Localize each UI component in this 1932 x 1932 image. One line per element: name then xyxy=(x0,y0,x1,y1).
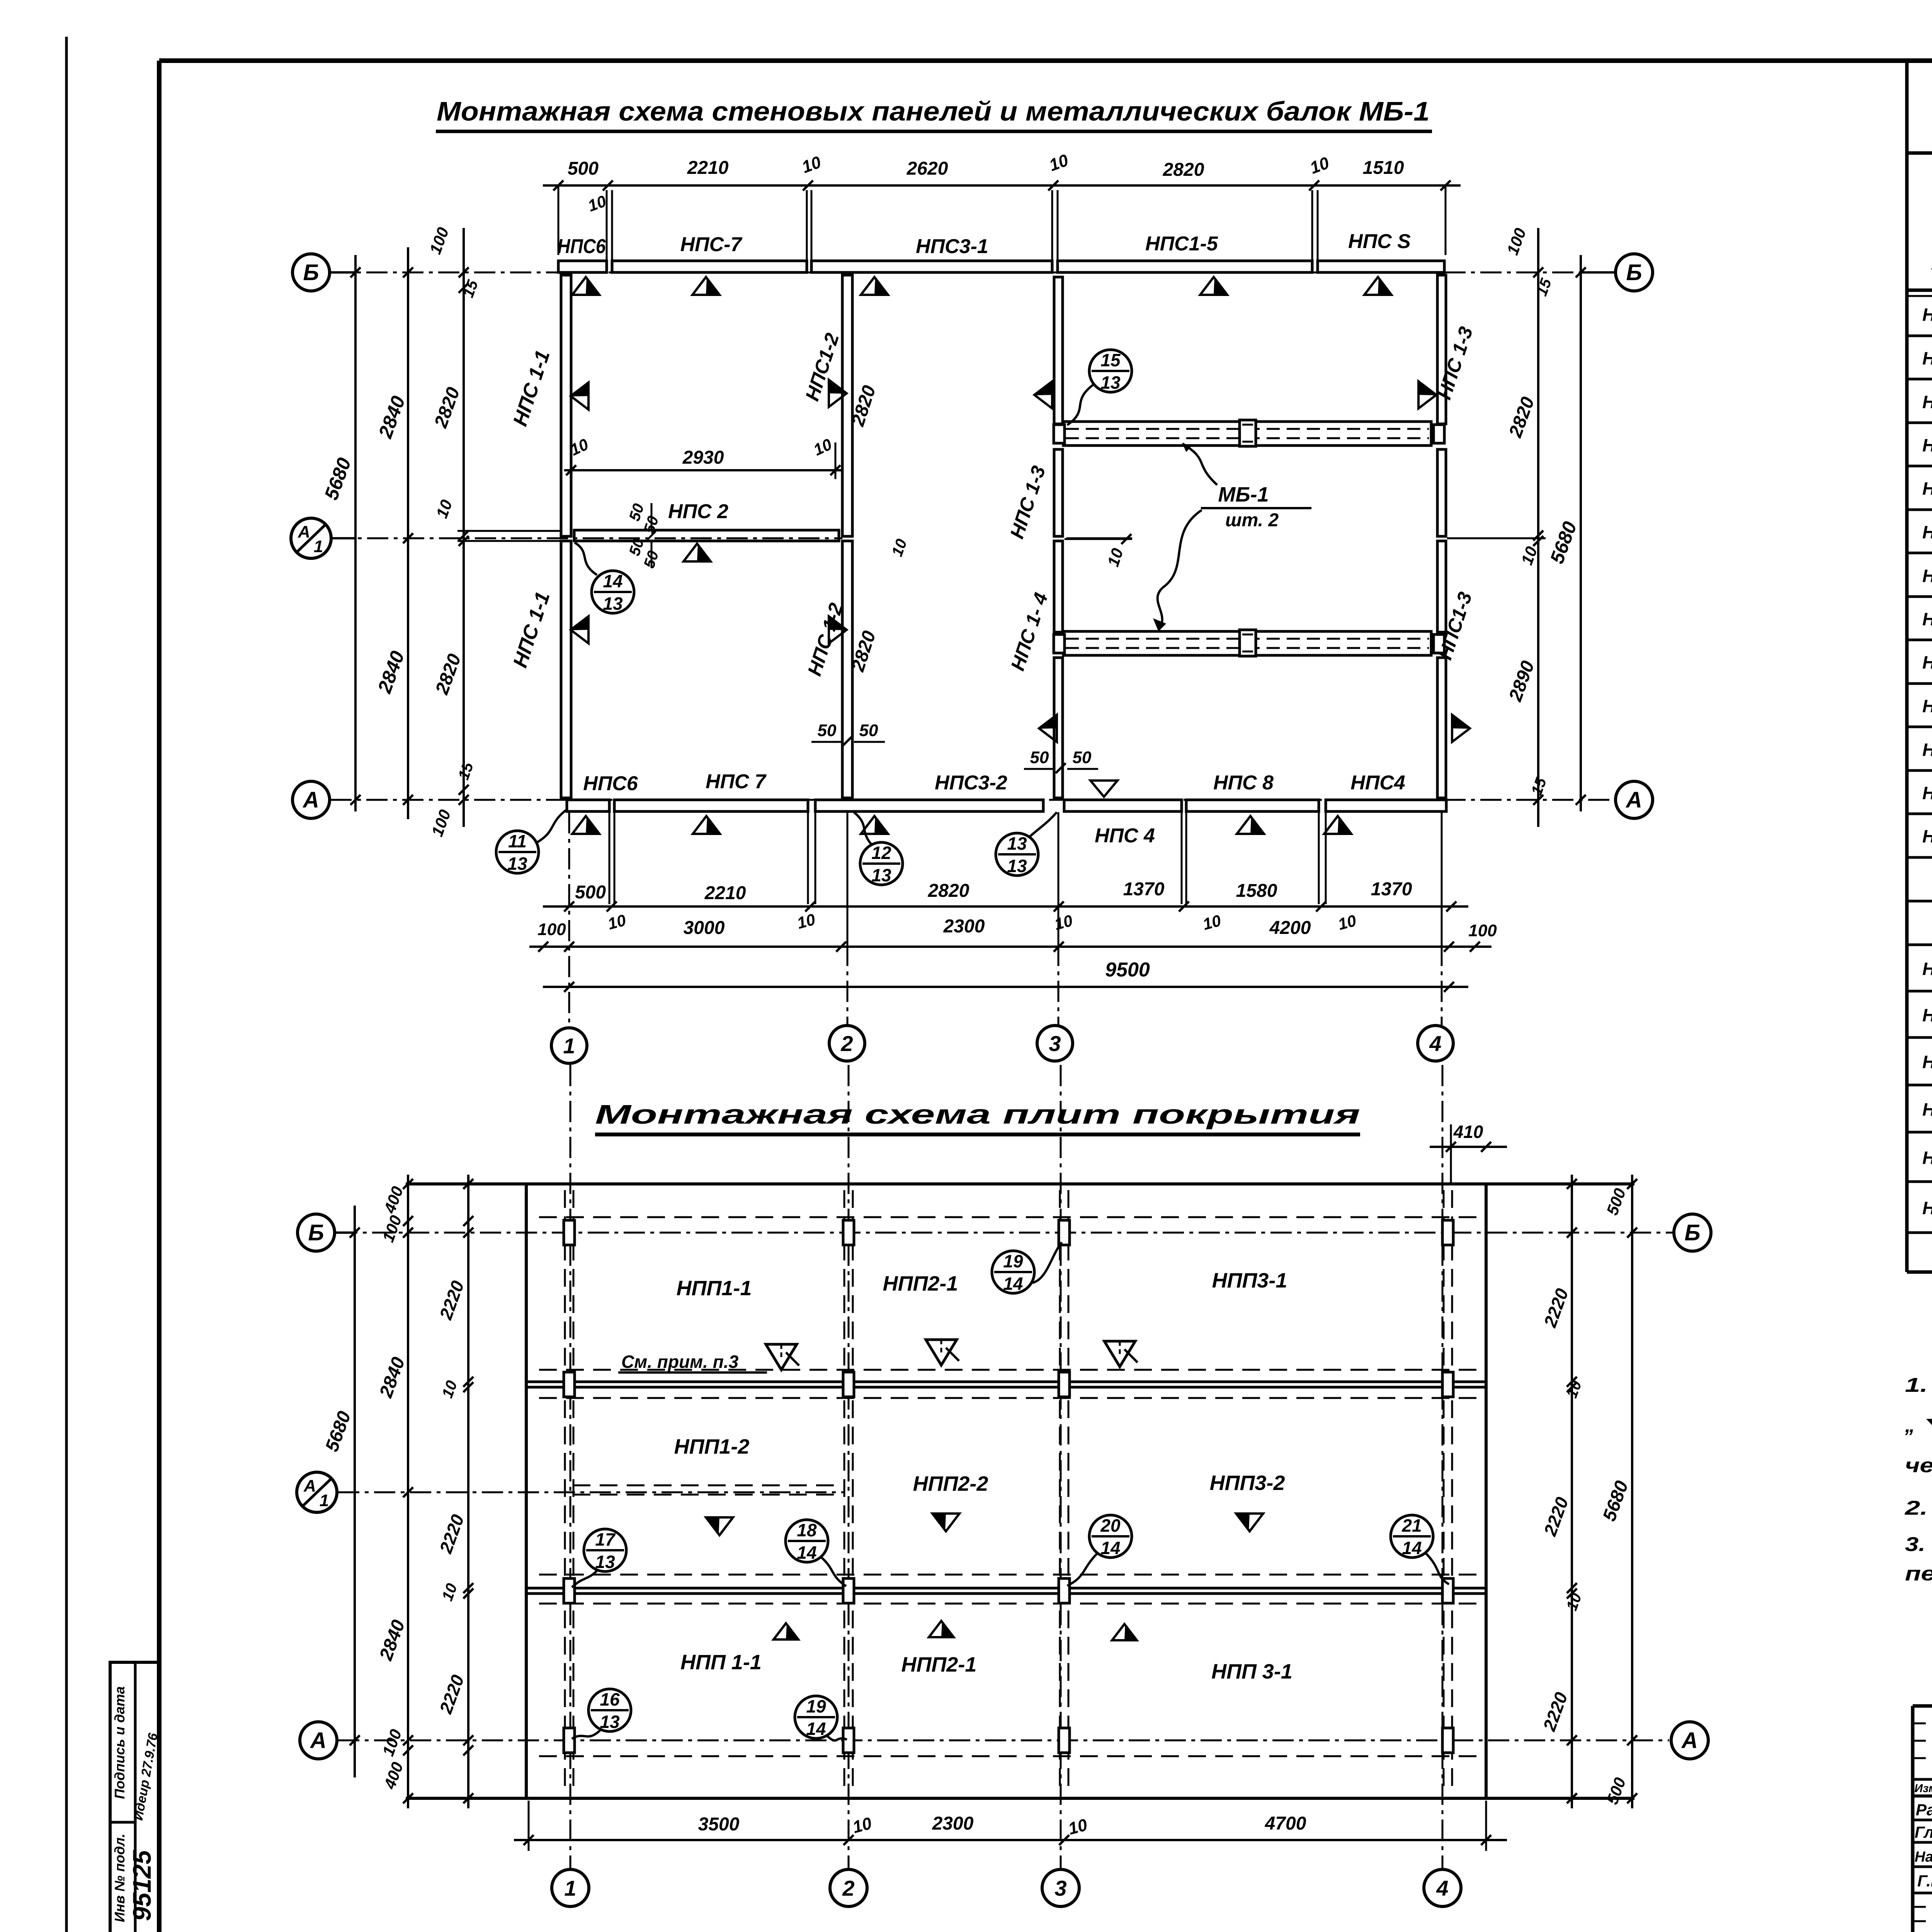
bottom dim row: 3500/10/2300/10/4700 xyxy=(514,1839,1507,1841)
axis A dash-dot line xyxy=(330,799,1615,801)
wall panel NPS-7 (top row) xyxy=(612,261,807,272)
axis A/1 dash-dot line xyxy=(331,537,842,539)
svg-text:13: 13 xyxy=(595,1552,615,1572)
svg-text:Изм.: Изм. xyxy=(1914,1782,1932,1795)
svg-text:НПС 5: НПС 5 xyxy=(1922,696,1932,716)
svg-text:НПС 7: НПС 7 xyxy=(1922,783,1932,803)
axis 1 circle lower xyxy=(552,1869,589,1906)
svg-text:14: 14 xyxy=(806,1719,826,1739)
svg-text:НПС 1- 4: НПС 1- 4 xyxy=(1922,435,1932,455)
10 joint label axis3 xyxy=(1066,537,1132,539)
svg-text:НПС 7: НПС 7 xyxy=(706,770,767,793)
svg-text:1370: 1370 xyxy=(1371,879,1412,900)
svg-text:НПП2-2: НПП2-2 xyxy=(913,1472,988,1495)
title block frame xyxy=(1913,1704,1932,1708)
top dimension line 500/2210/10/2620/10/2820/10/1510 xyxy=(543,184,1461,187)
svg-text:НПС1 - 2: НПС1 - 2 xyxy=(1922,348,1932,368)
svg-text:16: 16 xyxy=(600,1689,620,1709)
left dim line x=1056 (2840/2840) xyxy=(407,247,409,819)
svg-text:Б: Б xyxy=(1684,1220,1700,1245)
svg-text:4: 4 xyxy=(1436,1876,1448,1900)
detail ref 14/13 xyxy=(592,571,634,613)
svg-text:18: 18 xyxy=(797,1520,817,1540)
wall panel NPS6 (top row) xyxy=(558,261,607,272)
svg-text:НПП2-2.: НПП2-2. xyxy=(1922,1099,1932,1119)
wall panel NPS2 (axis A/1) xyxy=(574,530,839,541)
svg-text:Разраб.: Разраб. xyxy=(1916,1801,1932,1819)
svg-text:Монтажная схема плит п: Монтажная схема плит покрытия xyxy=(595,1099,1360,1129)
svg-text:НПС S: НПС S xyxy=(1348,230,1411,253)
svg-text:3000: 3000 xyxy=(684,918,725,938)
detail ref 17/13 xyxy=(584,1529,626,1571)
svg-text:20: 20 xyxy=(1100,1515,1121,1536)
svg-text:2300: 2300 xyxy=(943,916,985,937)
axis 4 circle xyxy=(1418,1026,1453,1061)
svg-text:НПС6: НПС6 xyxy=(583,772,638,795)
wall panel NPS8 (bottom row) xyxy=(1186,800,1319,811)
left binding line xyxy=(65,37,68,1932)
wall column NPS1-2 axis 2 lower xyxy=(842,541,852,798)
wall column NPS1-2 axis 2 upper xyxy=(842,275,852,536)
svg-text:НПС4: НПС4 xyxy=(1350,772,1405,794)
svg-text:13: 13 xyxy=(871,865,891,885)
wall column NPS1-3 axis 3 mid xyxy=(1054,449,1063,536)
wall panel NPS3-2 (bottom row) xyxy=(815,800,1043,811)
column joint dashed verticals xyxy=(564,1190,566,1793)
svg-text:А: А xyxy=(310,1728,327,1753)
left dim line x=1200 (2820/10/2820) xyxy=(463,228,465,827)
svg-text:14: 14 xyxy=(603,571,622,591)
beam end plate right xyxy=(1434,425,1444,443)
svg-text:500: 500 xyxy=(568,158,599,179)
svg-text:НПП3-2: НПП3-2 xyxy=(1922,1198,1932,1218)
svg-text:14: 14 xyxy=(1100,1538,1120,1558)
svg-text:чертежи АР -15; АР -16;: чертежи АР -15; АР -16; АР -17. xyxy=(1905,1454,1932,1477)
svg-text:3: 3 xyxy=(1049,1031,1061,1056)
right dim line x=4091 (5680) xyxy=(1580,255,1582,811)
table frame verticals xyxy=(1905,62,1909,1272)
steel beam MB-1 #2 xyxy=(1063,631,1431,655)
lower plan axis B dash-dot xyxy=(336,1232,1673,1234)
svg-text:НПС1-5: НПС1-5 xyxy=(1922,478,1932,498)
svg-text:1: 1 xyxy=(320,1491,329,1510)
beam end plate left xyxy=(1054,634,1065,653)
svg-text:МБ-1: МБ-1 xyxy=(1218,483,1269,506)
beam end plate left xyxy=(1054,425,1065,443)
svg-text:19: 19 xyxy=(1003,1251,1023,1271)
inventory stamp box xyxy=(110,1662,159,1932)
left dim x=918: 5680 xyxy=(354,1206,356,1777)
wall panel NPS1-5 (top row) xyxy=(1058,261,1312,272)
svg-text:500: 500 xyxy=(575,882,606,903)
axis B circle left lower xyxy=(298,1214,335,1251)
svg-text:НПП 3-1: НПП 3-1 xyxy=(1211,1660,1293,1683)
svg-text:14: 14 xyxy=(1003,1274,1023,1294)
steel beam MB-1 #1 xyxy=(1063,422,1431,446)
svg-text:2930: 2930 xyxy=(682,447,724,468)
svg-text:НПП1-2: НПП1-2 xyxy=(1922,1005,1932,1025)
svg-text:Б: Б xyxy=(1626,260,1642,285)
detail ref 15/13 xyxy=(1089,350,1132,392)
orientation marks mid walls xyxy=(571,383,588,410)
svg-text:95125: 95125 xyxy=(128,1850,156,1921)
beam middle connector xyxy=(1240,420,1256,446)
svg-text:См. прим. п.3: См. прим. п.3 xyxy=(621,1352,739,1372)
svg-text:Г.И. П: Г.И. П xyxy=(1917,1872,1932,1890)
wall panel NPS4 (bottom row) xyxy=(1326,800,1446,811)
title block small rows top xyxy=(1913,1723,1932,1725)
svg-text:НПС 2: НПС 2 xyxy=(1922,522,1932,542)
detail ref 12/13 xyxy=(860,842,903,885)
axis B circle right xyxy=(1616,254,1653,291)
bottom dim row 2: 100/3000/2300/4200/100 xyxy=(529,946,1492,948)
svg-text:НПС 8: НПС 8 xyxy=(1213,772,1274,794)
svg-text:НПП 1-1: НПП 1-1 xyxy=(680,1651,762,1674)
wall panel NPS3-1 (top row) xyxy=(811,261,1052,272)
svg-text:НПП1-1: НПП1-1 xyxy=(677,1277,752,1300)
open nabla mark near NPS4 xyxy=(1090,781,1117,797)
svg-text:13: 13 xyxy=(1100,372,1121,393)
svg-text:13: 13 xyxy=(1007,833,1027,854)
svg-text:НПП1-1: НПП1-1 xyxy=(1922,959,1932,979)
svg-text:НПС 4: НПС 4 xyxy=(1095,825,1155,847)
svg-text:19: 19 xyxy=(806,1696,826,1716)
svg-text:410: 410 xyxy=(1453,1122,1483,1142)
orientation marks below axis A panels xyxy=(572,816,599,834)
axis A circle right xyxy=(1616,781,1653,818)
svg-text:Инв № подл.: Инв № подл. xyxy=(112,1833,128,1922)
svg-text:100: 100 xyxy=(1468,921,1497,940)
title block row lines xyxy=(1913,1819,1932,1821)
svg-text:НПП1-2: НПП1-2 xyxy=(674,1435,750,1458)
svg-text:Б: Б xyxy=(308,1220,324,1245)
svg-text:1. При монтаже изделие: 1. При монтаже изделие ориентировать по … xyxy=(1905,1374,1932,1396)
svg-text:НПП2-1: НПП2-1 xyxy=(883,1272,958,1295)
svg-text:4: 4 xyxy=(1429,1031,1441,1056)
svg-text:3500: 3500 xyxy=(698,1814,740,1835)
svg-text:А: А xyxy=(1681,1728,1698,1753)
axis A circle right lower xyxy=(1671,1722,1708,1759)
svg-text:2: 2 xyxy=(842,1876,854,1900)
svg-text:НПС3 -1: НПС3 -1 xyxy=(1922,566,1932,586)
filled down-triangles row2 xyxy=(706,1517,733,1535)
bottom dim row 3: 9500 xyxy=(543,986,1468,988)
svg-text:2300: 2300 xyxy=(932,1813,974,1834)
axis B circle left xyxy=(293,254,330,291)
left dim x=1212: 2220/10/2220/10/2220 xyxy=(467,1175,469,1808)
svg-text:Гл. спец.: Гл. спец. xyxy=(1915,1823,1932,1841)
svg-text:21: 21 xyxy=(1401,1515,1422,1536)
svg-text:15: 15 xyxy=(1100,350,1121,370)
svg-text:НПП3-2: НПП3-2 xyxy=(1210,1471,1285,1495)
wall column NPS1-3 axis 3 upper xyxy=(1054,277,1063,424)
svg-text:НПС1-5: НПС1-5 xyxy=(1145,233,1218,255)
svg-text:Нач. отд: Нач. отд xyxy=(1915,1849,1932,1865)
orientation mark below NPS2 xyxy=(684,544,711,561)
dimension 2930 above NPS2 xyxy=(564,469,842,471)
svg-text:50: 50 xyxy=(818,721,837,740)
lower plan outline xyxy=(406,1182,1634,1185)
svg-text:А: А xyxy=(298,522,310,541)
svg-text:14: 14 xyxy=(1402,1538,1422,1558)
svg-text:1510: 1510 xyxy=(1363,158,1404,178)
svg-text:13: 13 xyxy=(600,1712,620,1732)
svg-text:НПС 2: НПС 2 xyxy=(668,500,728,523)
wall panel NPS4 small (bottom row) xyxy=(1064,800,1182,811)
joint connector plates xyxy=(564,1220,575,1245)
svg-text:50: 50 xyxy=(1030,748,1049,767)
wall column NPS1-1 axis 1 lower xyxy=(561,541,571,798)
svg-text:4200: 4200 xyxy=(1269,918,1311,938)
svg-text:НПС1- 3: НПС1- 3 xyxy=(1922,392,1932,412)
svg-text:А: А xyxy=(302,787,319,813)
orientation marks below axis B panels xyxy=(572,277,599,295)
column axis dash-dot verticals to circles xyxy=(570,1065,571,1868)
svg-text:2820: 2820 xyxy=(1163,160,1204,180)
svg-text:НПП3-1: НПП3-1 xyxy=(1922,1148,1932,1168)
svg-text:17: 17 xyxy=(595,1529,616,1549)
svg-text:12: 12 xyxy=(871,843,891,863)
svg-text:НПП2-1: НПП2-1 xyxy=(1922,1052,1932,1072)
beam middle connector xyxy=(1240,630,1256,656)
svg-text:13: 13 xyxy=(507,854,527,874)
axis B dash-dot line xyxy=(330,272,1615,274)
svg-text:2820: 2820 xyxy=(928,881,969,901)
axis 4 circle lower xyxy=(1424,1869,1461,1906)
lower plan axis A dash-dot xyxy=(338,1740,1669,1742)
panel joints below axis A xyxy=(609,812,611,904)
right dim line x=3981 (2820/10/2890) xyxy=(1537,228,1539,827)
svg-text:1370: 1370 xyxy=(1123,879,1165,900)
wall panel NPS7 (bottom row) xyxy=(614,800,808,811)
detail ref 20/14 xyxy=(1089,1515,1132,1558)
axis B circle right lower xyxy=(1674,1214,1711,1251)
svg-text:9500: 9500 xyxy=(1105,959,1150,981)
svg-text:50: 50 xyxy=(1073,748,1092,767)
svg-text:„: „ xyxy=(1905,1414,1915,1437)
svg-text:Б: Б xyxy=(303,260,319,285)
wall column NPS1-1 axis 1 upper xyxy=(561,275,571,536)
axis A/1 circle left xyxy=(291,518,331,558)
axis A/1 circle left lower xyxy=(297,1472,337,1512)
svg-text:переворачивая их зер: переворачивая их зеркально xyxy=(1905,1563,1932,1585)
left dim line x=920 (5680) xyxy=(354,255,357,811)
svg-text:НПС 8: НПС 8 xyxy=(1922,826,1932,846)
column axis extensions xyxy=(568,812,570,1028)
wall column NPS1-3 axis 4 upper xyxy=(1437,275,1446,424)
svg-text:13: 13 xyxy=(603,594,623,614)
left dim x=1056: 400/100/2840/2840/100/400 xyxy=(407,1175,409,1808)
sheet frame xyxy=(159,58,1932,63)
svg-text:50: 50 xyxy=(859,721,878,740)
svg-text:2210: 2210 xyxy=(687,158,729,178)
beam end plate right xyxy=(1434,634,1444,653)
svg-text:11: 11 xyxy=(508,831,527,851)
svg-text:13: 13 xyxy=(1007,856,1027,876)
svg-text:НПС 1 - 1: НПС 1 - 1 xyxy=(1922,304,1932,325)
svg-text:А: А xyxy=(303,1476,316,1495)
svg-text:НПП3-1: НПП3-1 xyxy=(1212,1269,1287,1292)
svg-text:НПП2-1: НПП2-1 xyxy=(901,1653,977,1676)
svg-text:НПС 6: НПС 6 xyxy=(1922,740,1932,760)
detail ref 19/14 top xyxy=(992,1251,1034,1293)
bottom dim row 1: 500/2210/10/2820/10/1370/10/1580/10/1370 xyxy=(543,905,1468,908)
detail ref 13/13 xyxy=(996,833,1038,876)
axis A circle left xyxy=(293,781,330,818)
svg-text:1580: 1580 xyxy=(1236,881,1277,901)
svg-text:НПС3 -2: НПС3 -2 xyxy=(1922,609,1932,629)
svg-text:3. Плиты НПП 1- 1; НПП2: 3. Плиты НПП 1- 1; НПП2 -1; НПП3-1 монти… xyxy=(1905,1533,1932,1556)
svg-text:4700: 4700 xyxy=(1265,1813,1306,1834)
axis 3 circle lower xyxy=(1042,1869,1079,1906)
wall column axis 4 mid xyxy=(1437,449,1446,536)
svg-text:Подпись и дата: Подпись и дата xyxy=(112,1686,128,1799)
axis A circle left lower xyxy=(300,1722,337,1759)
dashed nabla marks row1 xyxy=(766,1344,797,1370)
wall column axis 3 lowest xyxy=(1054,658,1063,798)
dim 410 top right xyxy=(1430,1146,1507,1148)
svg-text:100: 100 xyxy=(537,920,566,939)
svg-text:3: 3 xyxy=(1054,1876,1066,1900)
svg-text:НПС6: НПС6 xyxy=(558,235,606,258)
wall panel NPS6 (bottom row) xyxy=(567,800,609,811)
svg-text:Монтажная схема стеновых: Монтажная схема стеновых панелей и метал… xyxy=(437,96,1430,126)
svg-text:1: 1 xyxy=(314,537,323,556)
svg-text:2: 2 xyxy=(840,1031,853,1056)
svg-text:НПС3-2: НПС3-2 xyxy=(935,772,1007,794)
NPS2 edge extension lines to left dim xyxy=(457,530,561,532)
leader to NPS6 xyxy=(537,810,567,842)
wall column axis 4 lowest xyxy=(1437,658,1446,798)
wall column NPS1-4 axis 3 lower xyxy=(1054,541,1063,632)
lower plan axis A/1 dash-dot xyxy=(338,1492,844,1493)
axis 2 circle lower xyxy=(830,1869,867,1906)
slab joint line 2 (double) xyxy=(526,1587,1486,1590)
wall panel NPS5 (top row) xyxy=(1318,261,1444,272)
axis 3 circle xyxy=(1037,1026,1073,1061)
svg-text:шт. 2: шт. 2 xyxy=(1225,510,1279,531)
axis 2 circle xyxy=(829,1026,865,1061)
table horizontals xyxy=(1907,151,1932,155)
right dim x=4224: 500/5680/500 xyxy=(1631,1175,1633,1808)
svg-text:НПС3-1: НПС3-1 xyxy=(916,235,988,258)
wall column NPS1-3 axis 4 lower xyxy=(1437,541,1446,632)
detail ref 18/14 xyxy=(786,1520,828,1562)
panel joints above axis B xyxy=(606,190,608,260)
svg-text:1: 1 xyxy=(564,1876,576,1900)
axis 1 circle xyxy=(551,1028,587,1063)
svg-text:НПС 4: НПС 4 xyxy=(1922,652,1932,672)
svg-text:2210: 2210 xyxy=(704,883,746,903)
svg-text:1: 1 xyxy=(563,1034,575,1058)
svg-text:НПС-7: НПС-7 xyxy=(680,233,743,256)
svg-text:2. Данный лист см. с: 2. Данный лист см. с листами АР - 13; АР… xyxy=(1905,1497,1932,1519)
slab joint line 1 (double) xyxy=(526,1381,1486,1383)
svg-text:А: А xyxy=(1625,787,1642,813)
detail ref 19/14 bottom xyxy=(795,1696,837,1738)
svg-text:2620: 2620 xyxy=(906,158,948,179)
svg-text:14: 14 xyxy=(797,1543,816,1563)
detail ref 11/13 xyxy=(496,831,539,873)
detail ref 16/13 xyxy=(588,1689,631,1731)
detail ref 21/14 xyxy=(1391,1515,1433,1558)
up-triangle marks row3 xyxy=(774,1623,798,1639)
slab edge dashed lines xyxy=(539,1216,1480,1218)
right dim x=4068: 2220/10/2220/10/2220 xyxy=(1571,1175,1573,1808)
